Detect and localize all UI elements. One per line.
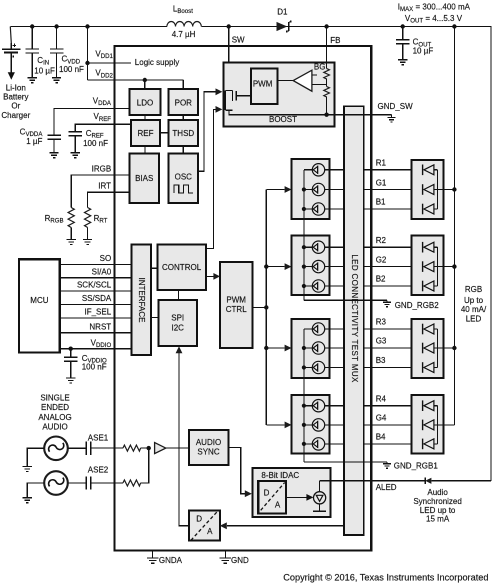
svg-text:GNDA: GNDA [159,556,183,565]
svg-text:G3: G3 [376,337,387,346]
svg-text:GND_RGB1: GND_RGB1 [394,462,439,471]
svg-text:IRT: IRT [98,182,111,191]
svg-text:SI/A0: SI/A0 [92,268,112,277]
svg-text:CREF: CREF [86,129,104,140]
svg-text:15 mA: 15 mA [426,515,450,524]
svg-text:G2: G2 [376,255,387,264]
svg-text:LED: LED [466,315,482,324]
svg-text:D1: D1 [277,7,288,16]
svg-text:AUDIO: AUDIO [196,438,221,447]
svg-text:100 nF: 100 nF [83,139,108,148]
svg-text:CTRL: CTRL [226,305,247,314]
svg-text:10 µF: 10 µF [413,47,434,56]
svg-text:8-Bit IDAC: 8-Bit IDAC [261,471,299,480]
svg-text:100 nF: 100 nF [59,65,84,74]
svg-text:BIAS: BIAS [135,174,153,183]
svg-text:IMAX = 300...400 mA: IMAX = 300...400 mA [398,3,471,14]
svg-text:100 nF: 100 nF [82,363,107,372]
svg-text:Charger: Charger [1,111,30,120]
svg-text:A: A [275,501,281,510]
svg-text:10 µF: 10 µF [34,66,55,75]
svg-text:RRT: RRT [94,214,108,225]
svg-text:Or: Or [11,102,20,111]
svg-text:REF: REF [138,129,154,138]
svg-text:CVDD: CVDD [62,55,81,66]
svg-text:Copyright © 2016, Texas Instru: Copyright © 2016, Texas Instruments Inco… [283,573,488,583]
svg-text:BOOST: BOOST [269,115,297,124]
svg-text:GND_SW: GND_SW [378,102,414,111]
svg-text:ENDED: ENDED [41,403,69,412]
svg-text:POR: POR [175,98,193,107]
svg-text:FB: FB [330,36,340,45]
svg-text:A: A [207,527,213,536]
svg-text:Logic supply: Logic supply [135,58,179,67]
svg-text:B2: B2 [376,275,386,284]
svg-text:SINGLE: SINGLE [40,394,69,403]
svg-text:IRGB: IRGB [92,165,112,174]
svg-text:B1: B1 [376,198,386,207]
svg-text:1 µF: 1 µF [26,137,42,146]
svg-text:VDD2: VDD2 [95,69,113,80]
svg-text:Li-Ion: Li-Ion [6,84,26,93]
svg-text:VDD1: VDD1 [95,49,113,60]
svg-text:G4: G4 [376,414,387,423]
svg-text:RGB: RGB [465,285,482,294]
svg-text:OSC: OSC [175,173,193,182]
svg-text:40 mA/: 40 mA/ [461,305,487,314]
svg-text:NRST: NRST [89,322,111,331]
svg-text:Up to: Up to [464,296,484,305]
svg-text:SPI: SPI [171,313,184,322]
svg-text:IF_SEL: IF_SEL [85,308,112,317]
svg-text:SS/SDA: SS/SDA [82,294,112,303]
svg-text:LDO: LDO [137,98,153,107]
svg-text:SW: SW [232,36,245,45]
svg-text:PWM: PWM [226,296,246,305]
svg-text:CIN: CIN [37,56,49,67]
svg-text:ASE2: ASE2 [88,466,109,475]
svg-text:GND_RGB2: GND_RGB2 [395,301,440,310]
svg-text:VDDA: VDDA [93,97,112,108]
svg-text:SYNC: SYNC [197,448,219,457]
svg-text:VDDIO: VDDIO [91,338,112,349]
svg-text:THSD: THSD [172,129,194,138]
svg-text:B3: B3 [376,356,386,365]
svg-text:Audio: Audio [427,488,448,497]
svg-text:GND: GND [231,556,249,565]
svg-text:BG: BG [314,63,326,72]
svg-text:ASE1: ASE1 [88,434,109,443]
svg-text:MCU: MCU [30,296,48,305]
svg-text:Synchronized: Synchronized [413,497,461,506]
svg-text:INTERFACE: INTERFACE [137,278,146,323]
svg-text:RRGB: RRGB [45,214,64,225]
svg-text:D: D [264,488,270,497]
svg-text:4.7 µH: 4.7 µH [172,30,196,39]
svg-text:Battery: Battery [3,92,28,101]
svg-text:LED CONNECTIVITY TEST MUX: LED CONNECTIVITY TEST MUX [350,254,359,383]
svg-text:CONTROL: CONTROL [162,263,202,272]
svg-text:AUDIO: AUDIO [42,423,67,432]
svg-text:G1: G1 [376,178,387,187]
svg-text:R4: R4 [376,394,387,403]
svg-text:VOUT = 4...5.3 V: VOUT = 4...5.3 V [405,14,463,25]
svg-text:LBoost: LBoost [173,5,193,16]
svg-text:PWM: PWM [253,80,273,89]
svg-text:R1: R1 [376,159,387,168]
svg-text:I2C: I2C [171,323,184,332]
svg-text:R2: R2 [376,236,387,245]
svg-text:ANALOG: ANALOG [38,413,71,422]
svg-text:B4: B4 [376,433,386,442]
svg-text:ALED: ALED [376,483,397,492]
svg-text:SO: SO [100,254,112,263]
svg-text:SCK/SCL: SCK/SCL [77,281,112,290]
svg-text:D: D [196,515,202,524]
svg-text:R3: R3 [376,318,387,327]
svg-text:VREF: VREF [93,112,111,123]
